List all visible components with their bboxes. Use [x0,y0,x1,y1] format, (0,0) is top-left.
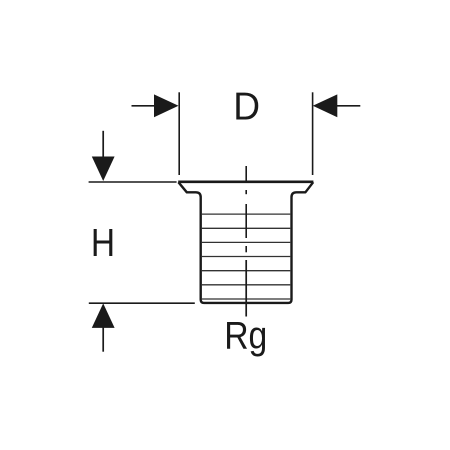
dimension D: left arrowhead [154,94,179,117]
svg-text:D: D [233,85,260,128]
centerline dot below flange top [245,190,247,194]
dimension H: top arrowhead [92,157,115,182]
thread line 4 [202,256,290,258]
centerline dash above flange [245,166,247,182]
centerline long dash in body [245,204,247,238]
dimension H: top extension line [89,181,177,183]
thread line 2 [202,227,290,229]
centerline dot in body [245,246,247,252]
dimension H: bottom extension line [89,302,195,304]
dimension D: right arrowhead [313,94,338,117]
dimension H: bottom arrow shaft [102,327,104,352]
body outline: chamfers, underside, walls, bottom [178,182,313,303]
dimension D: right shaft [336,105,360,107]
thread line 5 [202,270,290,272]
dimension H: bottom arrowhead [92,303,115,328]
thread line 6 [202,284,290,286]
dimension D: left shaft [132,105,157,107]
dimension D: left extension tick [178,92,180,175]
svg-text:H: H [91,222,115,265]
dimension H: top arrow shaft [102,131,104,158]
thread line 7 [202,298,290,300]
flange top edge [178,181,313,184]
Rg leader line [245,260,247,317]
svg-text:Rg: Rg [224,314,267,357]
thread line 1 [202,213,290,215]
thread line 3 [202,241,290,243]
dimension D: right extension tick [312,92,314,175]
